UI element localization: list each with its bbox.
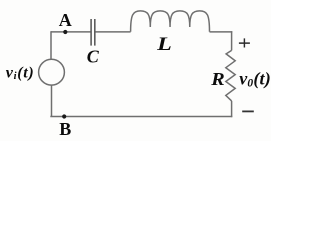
node A junction dot [63, 30, 67, 34]
svg-text:L: L [156, 34, 172, 55]
wire: inductor to top-right corner [210, 31, 233, 33]
polarity plus sign [239, 38, 250, 47]
wire: right rail lower lead from resistor to bottom wire [231, 101, 233, 117]
wire: top-left horizontal from left rail to capacitor [51, 31, 91, 33]
svg-text:v0(t): v0(t) [239, 68, 271, 89]
svg-text:B: B [59, 119, 71, 139]
resistor R zigzag [226, 50, 235, 101]
wire: right rail upper lead into resistor [231, 31, 233, 50]
voltage source Vi circle [39, 59, 65, 85]
inductor L coil (4 arches) [131, 11, 210, 32]
svg-text:A: A [59, 10, 72, 30]
wire: bottom return wire B rail [50, 116, 232, 118]
wire: capacitor to inductor [96, 31, 131, 33]
wire: left rail lower segment below source [51, 85, 53, 116]
wire: left rail upper segment above source [50, 31, 52, 59]
polarity minus sign [242, 110, 254, 112]
svg-text:R: R [210, 70, 225, 90]
node B junction dot [62, 114, 66, 118]
svg-text:vi(t): vi(t) [6, 65, 35, 82]
capacitor C right plate [94, 19, 96, 46]
capacitor C left plate [90, 19, 92, 46]
svg-text:C: C [87, 46, 100, 66]
